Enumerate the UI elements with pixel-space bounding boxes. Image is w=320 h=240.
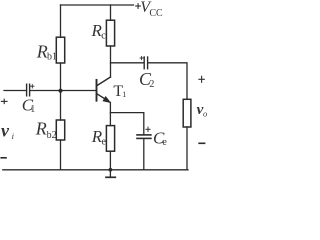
node ground junction dot — [109, 168, 113, 172]
label vo — [197, 102, 208, 118]
wire RL bottom lead — [186, 127, 188, 170]
wire C1 to base — [30, 90, 95, 92]
plus sign of Ce — [146, 127, 150, 132]
label C1 — [22, 96, 35, 116]
svg-text:R: R — [36, 41, 48, 61]
resistor Re — [106, 126, 114, 152]
plus sign output — [199, 76, 204, 82]
wire bottom ground rail — [3, 169, 188, 171]
wire input to C1 — [4, 90, 26, 92]
label vi — [1, 120, 15, 141]
label C2 — [139, 69, 154, 90]
plus sign of C1 — [31, 85, 34, 88]
resistor Rb1 — [56, 37, 64, 63]
wire Rb1 bottom to Rb2 top — [60, 63, 62, 120]
wire collector to C2 branch — [111, 62, 144, 64]
node base junction dot — [58, 89, 62, 93]
ground — [106, 170, 115, 178]
resistor Rc — [106, 20, 114, 46]
wire Rb1 top lead — [60, 5, 62, 37]
svg-text:o: o — [203, 108, 207, 118]
wire emitter vertical — [109, 102, 111, 125]
plus sign of VCC — [136, 4, 141, 9]
svg-text:R: R — [35, 119, 47, 139]
label +VCC — [140, 0, 163, 19]
svg-text:e: e — [162, 137, 167, 148]
svg-text:CC: CC — [149, 8, 163, 19]
wire Ce bottom lead — [143, 139, 145, 170]
svg-text:2: 2 — [149, 79, 154, 90]
svg-text:v: v — [1, 120, 10, 140]
minus sign output — [199, 142, 205, 144]
svg-text:b2: b2 — [47, 130, 57, 141]
resistor Rb2 — [56, 120, 64, 140]
label Re — [91, 127, 107, 147]
svg-text:e: e — [102, 136, 107, 147]
wire C2 to output corner — [148, 63, 187, 100]
resistor RL load — [183, 99, 191, 127]
svg-text:c: c — [101, 31, 106, 42]
label Ce — [153, 128, 167, 148]
wire Rc top lead — [110, 5, 112, 20]
plus sign of C2 — [140, 56, 143, 59]
capacitor Ce — [137, 135, 151, 139]
transistor T1 — [97, 77, 111, 103]
label Rc — [91, 21, 107, 42]
label Rb2 — [35, 119, 57, 141]
label T1 — [113, 83, 126, 100]
minus sign input — [1, 157, 6, 159]
svg-text:1: 1 — [122, 90, 126, 99]
wire top supply rail — [61, 4, 134, 6]
capacitor C2 — [144, 57, 147, 69]
capacitor C1 — [27, 84, 30, 96]
wire collector vertical — [110, 46, 112, 77]
plus sign input — [1, 99, 7, 103]
wire Re bottom lead — [109, 151, 111, 170]
wire Rb2 bottom lead — [60, 140, 62, 170]
svg-text:b1: b1 — [47, 52, 57, 63]
svg-text:1: 1 — [30, 104, 35, 115]
label Rb1 — [36, 41, 57, 62]
wire emitter to Ce branch — [110, 113, 143, 134]
